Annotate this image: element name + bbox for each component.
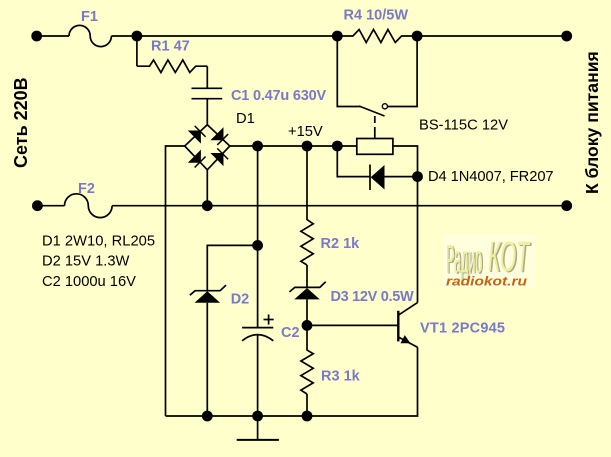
wire R1 to C1 — [206, 66, 208, 88]
node: base node junction — [302, 320, 313, 331]
wire bridge bottom to F2 rail — [206, 170, 208, 206]
diode D4 triangle — [371, 165, 385, 190]
node: ground on bottom rail — [252, 411, 263, 422]
svg-text:К блоку питания: К блоку питания — [582, 51, 602, 194]
svg-text:D2 15V 1.3W: D2 15V 1.3W — [42, 254, 129, 270]
node: R3 on bottom rail — [302, 411, 313, 422]
wire C1 to bridge top — [206, 99, 208, 125]
bridge diode top-right — [212, 129, 228, 145]
node: right terminal bottom — [561, 200, 572, 211]
ground stub — [257, 416, 259, 440]
relay mechanical link (dashed) — [374, 116, 376, 131]
zener D2 triangle — [195, 291, 221, 302]
svg-text:C2 1000u 16V: C2 1000u 16V — [42, 274, 136, 290]
svg-text:D2: D2 — [231, 292, 250, 308]
wire top rail middle — [111, 35, 337, 37]
wire R2 to D3 — [306, 265, 308, 287]
node: left terminal top — [31, 31, 42, 42]
svg-text:F1: F1 — [81, 9, 98, 25]
node: bridge bottom on F2 rail — [202, 200, 213, 211]
node: R2 column on +15V rail — [302, 141, 313, 152]
svg-text:D4 1N4007, FR207: D4 1N4007, FR207 — [428, 169, 554, 185]
resistor R2 — [301, 146, 313, 265]
wire bridge left to return column — [166, 146, 185, 416]
svg-text:C2: C2 — [281, 325, 300, 341]
node: right terminal top — [561, 31, 572, 42]
wire F2 rail right — [112, 205, 567, 207]
node: coil feed on +15V rail — [332, 141, 343, 152]
node: D2 on bottom rail — [202, 411, 213, 422]
bridge rectifier D1 diamond — [185, 125, 230, 170]
relay switch blade — [359, 106, 385, 116]
svg-text:F2: F2 — [78, 181, 95, 197]
capacitor C1 — [192, 87, 223, 89]
wire D4 right leg — [384, 176, 418, 178]
svg-text:R1 47: R1 47 — [151, 39, 190, 55]
svg-text:R2 1k: R2 1k — [321, 236, 361, 252]
bridge diode bottom-right — [212, 148, 228, 164]
ground bar — [237, 439, 279, 441]
svg-text:Сеть 220В: Сеть 220В — [11, 77, 31, 168]
node: R4 left junction — [332, 31, 343, 42]
svg-text:D1: D1 — [236, 111, 255, 127]
node: left terminal bottom — [32, 200, 43, 211]
bridge diode top-left — [189, 126, 205, 142]
bridge diode bottom-left — [189, 151, 205, 167]
svg-text:D1 2W10, RL205: D1 2W10, RL205 — [42, 234, 155, 250]
svg-text:C1 0.47u 630V: C1 0.47u 630V — [231, 88, 327, 104]
wire top rail right — [417, 35, 567, 37]
transistor VT1 base bar — [397, 311, 399, 342]
capacitor C2 — [242, 327, 273, 329]
transistor VT1 emitter — [398, 337, 417, 347]
wire coil right to collector column — [393, 146, 418, 303]
node: C2 column on +15V rail — [252, 141, 263, 152]
transistor VT1 base wire — [307, 324, 398, 326]
svg-text:radiokot.ru: radiokot.ru — [446, 275, 527, 289]
svg-text:VT1 2PC945: VT1 2PC945 — [420, 321, 505, 337]
wire relay branch down from R4 left — [337, 36, 360, 107]
wire D4 left leg — [337, 146, 370, 177]
svg-text:D3 12V 0.5W: D3 12V 0.5W — [331, 289, 415, 305]
wire R1 drop from F1 junction — [136, 36, 138, 66]
zener diode D2 — [190, 285, 226, 295]
wire D2 branch — [207, 245, 257, 290]
relay switch fixed contact circle — [382, 104, 387, 109]
transistor VT1 collector — [398, 303, 417, 316]
wire R3 to bottom rail — [306, 394, 308, 416]
C2 plus sign — [264, 319, 274, 321]
transistor VT1 emitter arrow — [400, 335, 412, 347]
wire F2 rail left — [37, 205, 64, 207]
wire top rail left segment — [37, 35, 69, 37]
svg-text:R3 1k: R3 1k — [321, 369, 361, 385]
resistor R1 — [137, 60, 207, 73]
wire bridge right to +15V rail — [230, 145, 357, 147]
zener diode D3 — [290, 282, 326, 292]
relay coil BS-115C — [357, 139, 393, 155]
fuse F1 — [69, 25, 111, 46]
resistor R3 — [301, 325, 313, 394]
watermark radiokot logo — [443, 233, 536, 289]
svg-text:R4 10/5W: R4 10/5W — [344, 8, 409, 24]
wire D2 to bottom rail — [206, 303, 208, 416]
node: D2 branch junction — [252, 240, 263, 251]
diode D4 cathode bar — [369, 165, 371, 191]
node: D4 right junction — [412, 171, 423, 182]
wire switch right to R4 right — [388, 36, 417, 107]
resistor R4 — [337, 30, 417, 43]
wire D3 to base node — [306, 299, 308, 325]
svg-text:BS-115C 12V: BS-115C 12V — [419, 118, 508, 134]
node: R4 right junction — [412, 31, 423, 42]
fuse F2 — [65, 194, 113, 218]
wire C2 column (from +15V rail down to bottom rail) — [257, 146, 259, 328]
svg-text:+15V: +15V — [288, 124, 323, 140]
node: F1/R1 junction — [132, 31, 143, 42]
bottom rail — [166, 347, 418, 416]
zener D3 triangle — [294, 288, 320, 299]
